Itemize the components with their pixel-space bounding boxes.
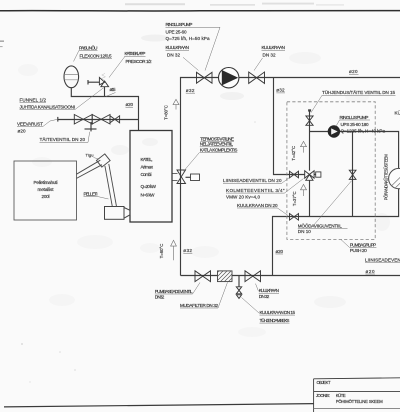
- svg-text:ø20: ø20: [349, 69, 358, 74]
- svg-text:ø20: ø20: [276, 249, 284, 254]
- svg-text:PUMBASEADEVENTIL: PUMBASEADEVENTIL: [155, 289, 193, 294]
- svg-text:Arimax: Arimax: [141, 164, 154, 169]
- svg-text:RINGLUSPUMP: RINGLUSPUMP: [166, 22, 193, 27]
- svg-text:MÖÖDAVIIGUVENTIIL: MÖÖDAVIIGUVENTIIL: [298, 222, 342, 228]
- svg-text:UPE 25-60: UPE 25-60: [166, 29, 187, 34]
- svg-text:KÜTE: KÜTE: [336, 393, 346, 398]
- svg-text:JOONIS:: JOONIS:: [316, 393, 330, 398]
- svg-text:JUHTIDA KANALISATSIOONI: JUHTIDA KANALISATSIOONI: [20, 104, 76, 109]
- svg-text:TÄITEVENTIIL DN 20: TÄITEVENTIIL DN 20: [40, 136, 86, 142]
- svg-text:PÕHIMÕTTELINE SKEEM: PÕHIMÕTTELINE SKEEM: [336, 399, 384, 404]
- svg-text:NELJATEEVENTIIL: NELJATEEVENTIIL: [200, 142, 234, 147]
- svg-text:ø32: ø32: [276, 88, 285, 93]
- svg-text:T=60°C: T=60°C: [159, 244, 164, 259]
- svg-text:200l: 200l: [42, 194, 50, 199]
- svg-text:VEEVARUST: VEEVARUST: [17, 121, 43, 126]
- svg-text:KAITSEKLAPP: KAITSEKLAPP: [125, 51, 146, 56]
- svg-text:Tigu: Tigu: [86, 152, 94, 157]
- svg-text:T=37°C: T=37°C: [292, 191, 297, 206]
- svg-text:Combi: Combi: [141, 172, 152, 177]
- svg-text:KUULKRAAN: KUULKRAAN: [262, 45, 286, 50]
- svg-text:TÜHJENDAMISEKS: TÜHJENDAMISEKS: [260, 317, 290, 323]
- svg-text:PAISUNÕU: PAISUNÕU: [79, 44, 98, 50]
- svg-text:T=42°C: T=42°C: [291, 146, 296, 161]
- svg-text:KUULKRAAN DN 15: KUULKRAAN DN 15: [260, 310, 296, 315]
- svg-text:KUULKRAAN: KUULKRAAN: [259, 288, 279, 293]
- svg-text:RINGLUSPUMP: RINGLUSPUMP: [340, 115, 369, 120]
- svg-text:DN 32: DN 32: [263, 53, 276, 58]
- svg-text:FLEXCON 12/0,5: FLEXCON 12/0,5: [80, 53, 112, 58]
- svg-text:VMW 20 Kv=4,0: VMW 20 Kv=4,0: [226, 194, 260, 199]
- svg-text:ø32: ø32: [183, 248, 192, 253]
- svg-text:UPS 25-60 180: UPS 25-60 180: [341, 122, 369, 127]
- svg-text:Q=20 kW: Q=20 kW: [141, 184, 157, 189]
- svg-text:ø32: ø32: [186, 88, 195, 93]
- svg-text:FUNNEL 1/2: FUNNEL 1/2: [20, 97, 47, 102]
- svg-text:KATEL,: KATEL,: [141, 157, 153, 162]
- svg-text:N=6 kW: N=6 kW: [141, 192, 156, 197]
- svg-text:LIINISEADEVENTIIL DN 20: LIINISEADEVENTIIL DN 20: [223, 178, 282, 183]
- svg-text:KÜT: KÜT: [395, 110, 400, 116]
- svg-text:DN 32: DN 32: [167, 53, 180, 58]
- svg-text:PRESCOR 1/2: PRESCOR 1/2: [126, 59, 152, 64]
- svg-text:ø15: ø15: [110, 87, 116, 92]
- svg-text:KATLA KOMPLEKTIS: KATLA KOMPLEKTIS: [200, 147, 238, 152]
- svg-text:ø20: ø20: [126, 102, 134, 107]
- svg-text:LIINISEADEVENTIIL DN 20: LIINISEADEVENTIIL DN 20: [365, 257, 400, 262]
- svg-text:PÕRANDAKÜTTESÜSTEEM: PÕRANDAKÜTTESÜSTEEM: [384, 154, 389, 201]
- svg-text:Q=725 l/h, H=50 kPa: Q=725 l/h, H=50 kPa: [166, 36, 210, 41]
- svg-text:TERMOSTAATILINE: TERMOSTAATILINE: [200, 136, 234, 141]
- svg-text:KOLMETEEVENTIIL 3/4": KOLMETEEVENTIIL 3/4": [226, 188, 285, 193]
- svg-text:KUULKRAAN DN 20: KUULKRAAN DN 20: [237, 203, 278, 208]
- svg-text:MUDAFILTER DN 32: MUDAFILTER DN 32: [180, 303, 218, 308]
- svg-text:Pelletimahuti: Pelletimahuti: [34, 180, 58, 185]
- svg-text:PELLETI: PELLETI: [84, 191, 98, 196]
- svg-text:DN 10: DN 10: [298, 229, 311, 234]
- svg-text:ø20: ø20: [366, 269, 375, 274]
- svg-text:PUSH 20: PUSH 20: [350, 248, 367, 253]
- svg-text:Q=1235 l/h, H=40 kPa: Q=1235 l/h, H=40 kPa: [341, 129, 386, 134]
- svg-text:KUULKRAAN: KUULKRAAN: [166, 45, 190, 50]
- svg-text:OBJEKT: OBJEKT: [317, 380, 331, 385]
- svg-text:DN32: DN32: [155, 294, 165, 299]
- svg-text:T=80°C: T=80°C: [163, 105, 168, 120]
- svg-text:metallist: metallist: [38, 187, 55, 192]
- svg-text:DN 32: DN 32: [259, 294, 270, 299]
- svg-text:ø20: ø20: [18, 128, 26, 133]
